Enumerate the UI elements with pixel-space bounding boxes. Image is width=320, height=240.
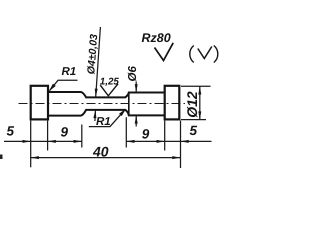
Ø6 dim line [135, 82, 137, 93]
svg-text:40: 40 [92, 144, 109, 160]
shaft bottom profile [48, 110, 165, 116]
svg-text:5: 5 [7, 124, 15, 139]
dim 5 right arrow [181, 140, 189, 143]
svg-text:Ø12: Ø12 [184, 91, 200, 118]
right head Ø12 [165, 86, 180, 120]
shaft top profile [48, 92, 165, 97]
dim row1 right segment [126, 140, 211, 142]
extension line B (x=47.6) [47, 121, 49, 151]
svg-text:R1: R1 [96, 116, 111, 128]
dim 9 right arrows [126, 140, 134, 143]
svg-text:R1: R1 [62, 66, 77, 78]
Ø4 dim line [96, 27, 101, 97]
right fillet shoulder line [128, 93, 130, 116]
centerline [19, 103, 186, 105]
dim 40 line [31, 157, 181, 159]
dim 9 left arrows [48, 140, 56, 143]
check under 1,25 [100, 84, 118, 96]
edge speck [0, 155, 3, 160]
extension line E (x=164.7) [164, 121, 166, 151]
dim row1 left segment + 5 arrow [4, 140, 82, 142]
extension line F (x=180.5) [180, 121, 182, 168]
R1 leader left [50, 80, 78, 90]
extension line C (x=81.8) [81, 125, 83, 148]
(check) right [190, 46, 194, 63]
svg-text:Ø6: Ø6 [127, 66, 139, 82]
svg-text:Rz80: Rz80 [142, 31, 171, 45]
R1 leader middle [89, 109, 126, 126]
extension line D (x=126.3) [125, 117, 127, 147]
check under Rz80 [155, 43, 174, 61]
extension line A (x=30.7) [30, 121, 32, 168]
left head Ø12 [31, 86, 48, 120]
Ø12 extension lines [181, 85, 211, 87]
Ø12 dim line [199, 86, 201, 119]
svg-text:5: 5 [190, 123, 198, 138]
svg-text:9: 9 [61, 125, 69, 140]
svg-text:9: 9 [142, 127, 150, 142]
